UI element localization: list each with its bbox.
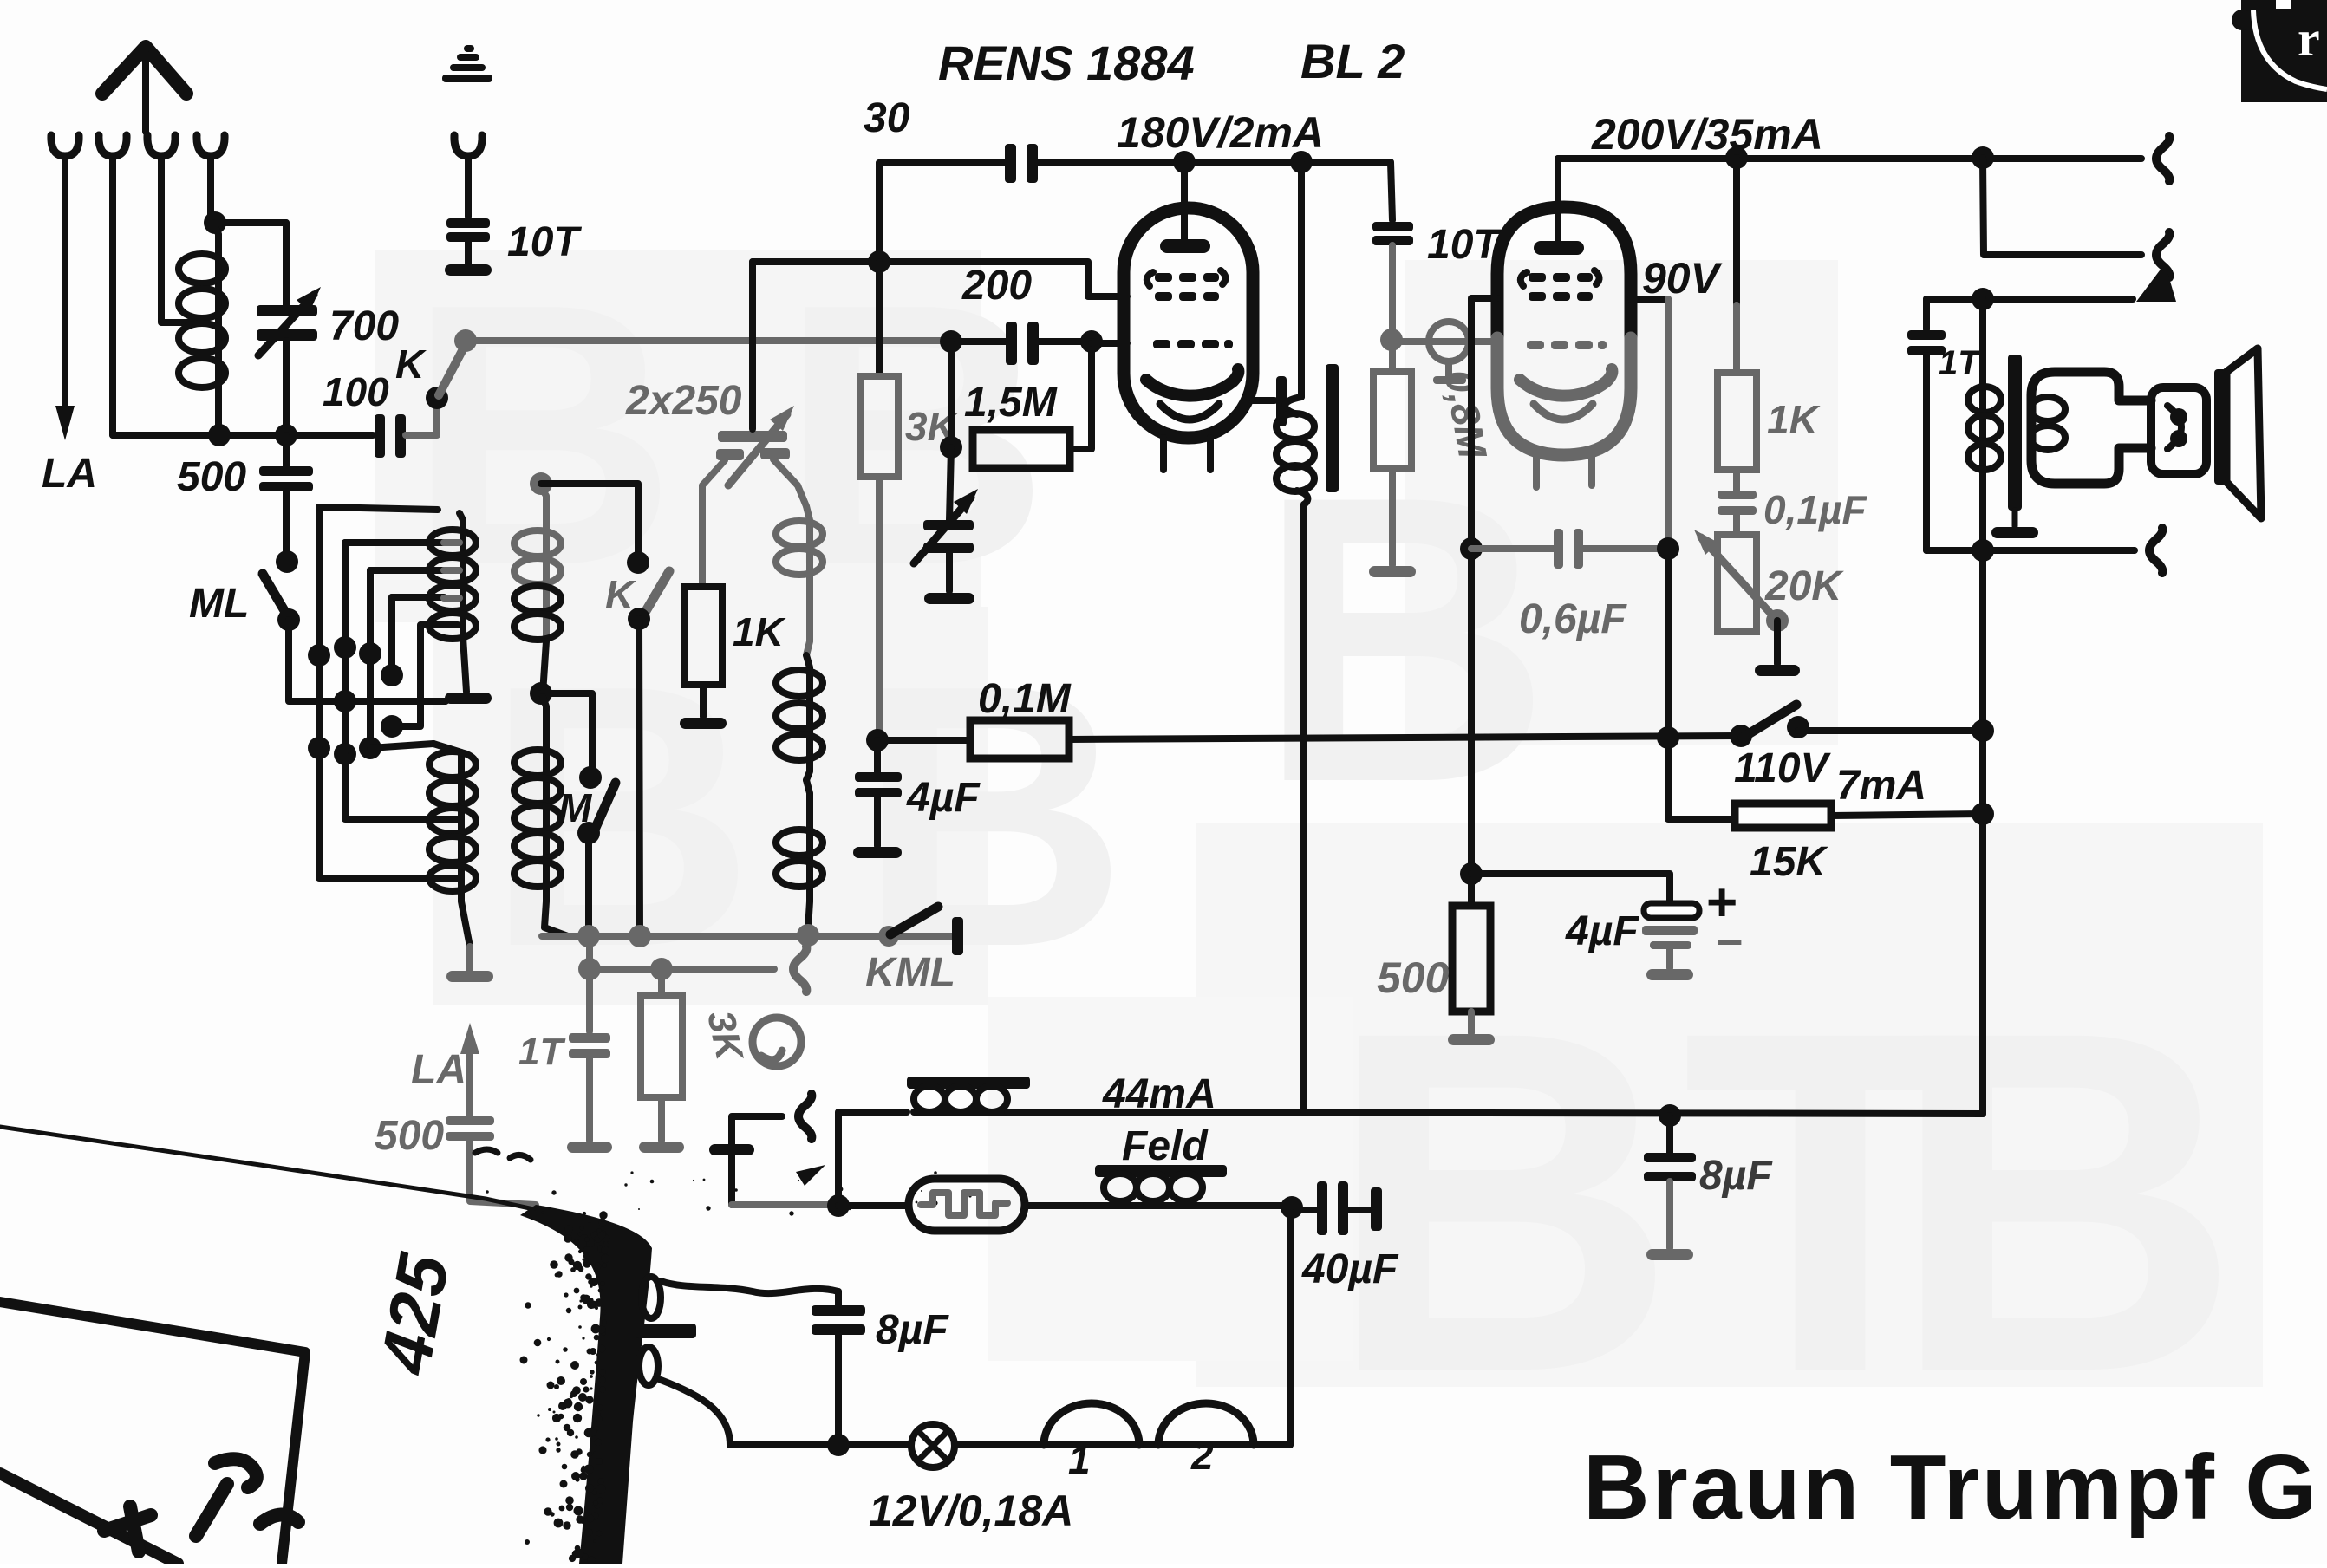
antenna terminal cups: [51, 135, 225, 156]
terminal hook (output bottom): [2149, 528, 2162, 573]
switch M lower contact: [577, 822, 600, 844]
wire connector to 8uF top: [661, 1281, 838, 1293]
ground (4uF bias): [853, 847, 902, 858]
switch ML contact: [277, 608, 300, 631]
node grid bus / 200 cap: [940, 330, 962, 353]
wire antenna bus: [113, 432, 373, 439]
ground (3K AF): [639, 1142, 684, 1153]
label Feld: [1122, 1123, 1209, 1169]
ground (coil L2b): [446, 971, 493, 982]
svg-text:10T: 10T: [507, 219, 582, 265]
wire antenna lead 1 (LA): [55, 156, 75, 440]
svg-text:1: 1: [1068, 1437, 1091, 1482]
svg-text:2: 2: [1190, 1433, 1214, 1478]
wire bias bus: [1069, 736, 1739, 739]
variable capacitor 2x250: [702, 406, 806, 586]
label 425 (underlying page): [366, 1247, 465, 1381]
label 3K (AF): [699, 1007, 751, 1066]
label 12V/0.18A: [869, 1487, 1073, 1535]
coil L2a (RF coil upper): [429, 513, 476, 692]
ground bar (coil L2a): [445, 693, 492, 704]
capacitor 1T (AF): [569, 969, 610, 1141]
svg-text:1T: 1T: [1939, 344, 1982, 382]
svg-text:90V: 90V: [1642, 254, 1723, 303]
node K1 pivot on gray bus: [454, 329, 477, 352]
svg-text:1K: 1K: [733, 609, 786, 654]
label 1K (osc): [733, 609, 786, 654]
node coil L3 mid: [530, 682, 552, 705]
resistor 1K (tone): [1718, 158, 1757, 470]
node grid V2: [1380, 329, 1403, 351]
svg-text:8µF: 8µF: [876, 1307, 949, 1353]
resistor 0.8M: [1373, 340, 1411, 565]
wire 44mA bus: [1007, 1112, 1983, 1114]
ground (500 cathode): [1448, 1034, 1495, 1045]
node 110V on rail: [1972, 719, 1994, 742]
terminal hook (pickup ground): [798, 1094, 812, 1139]
wire heater return: [730, 1441, 1290, 1448]
wire Feld to fuse line: [1287, 1210, 1294, 1445]
wire pickup bus: [590, 936, 774, 969]
svg-text:BL 2: BL 2: [1300, 34, 1405, 88]
label M: [558, 785, 593, 830]
wire 180V bus: [1075, 162, 1392, 220]
label 15K: [1750, 839, 1828, 885]
svg-text:40µF: 40µF: [1301, 1246, 1399, 1292]
node 15K on rail: [1972, 803, 1994, 825]
wire choke riser: [838, 1112, 907, 1206]
wire HT right rail upper: [1983, 158, 2141, 255]
svg-text:110V: 110V: [1734, 745, 1832, 791]
label 7mA: [1836, 763, 1926, 809]
node 1K feed on bus: [1725, 146, 1748, 169]
wire heater feed: [732, 1201, 834, 1208]
switch contact d1: [381, 664, 403, 686]
svg-text:r: r: [2298, 10, 2320, 67]
terminal hook (output mid): [2156, 232, 2169, 277]
barretter: [838, 1179, 1086, 1231]
capacitor 500 (antenna): [259, 435, 313, 558]
wire grid V2: [1392, 338, 1497, 345]
label KML: [865, 950, 955, 996]
svg-text:100: 100: [323, 369, 389, 414]
capacitor 0.1uF: [1718, 470, 1757, 535]
label 500 (cathode): [1377, 953, 1450, 1002]
interstage transformer primary: [1276, 162, 1314, 1112]
capacitor 30: [879, 144, 1075, 183]
node on ML wire: [334, 690, 356, 712]
wire switch contact column a: [319, 507, 438, 748]
wire M to KML bus: [585, 833, 592, 935]
svg-text:LA: LA: [42, 451, 97, 497]
switch K2 arm: [643, 571, 669, 615]
capacitor 40uF: [1297, 1181, 1382, 1235]
svg-text:0,6µF: 0,6µF: [1519, 596, 1627, 642]
tube V1 RENS 1884: [1124, 162, 1253, 470]
wire ML to coil ground bar: [289, 620, 446, 701]
svg-text:1,5M: 1,5M: [964, 380, 1058, 426]
capacitor 0.6uF: [1471, 529, 1666, 569]
wire osc top to K2: [541, 484, 638, 560]
ground (20K): [1755, 665, 1800, 676]
switch contact a2: [308, 737, 330, 759]
label 200V/35mA: [1591, 110, 1823, 159]
svg-text:500: 500: [177, 454, 246, 500]
torn page edge: [0, 1127, 972, 1565]
svg-text:0,1µF: 0,1µF: [1763, 487, 1867, 532]
label 700: [329, 303, 399, 349]
switch K2 lower contact: [628, 608, 650, 630]
stamp (top right): [2232, 0, 2327, 102]
wire speaker bottom: [1926, 547, 2135, 554]
node antenna coil top: [204, 211, 226, 234]
capacitor 100: [375, 400, 437, 458]
ground (0.8M): [1369, 566, 1416, 577]
wire node to 700 branch: [215, 219, 286, 226]
label 0.8M: [1436, 367, 1496, 463]
switch 110V pivot: [1730, 725, 1752, 747]
svg-text:B: B: [486, 608, 755, 1025]
wire connector to heater return: [661, 1380, 730, 1445]
svg-text:1T: 1T: [518, 1031, 565, 1073]
grid cap connector V2: [1429, 322, 1469, 384]
switch K1 arm: [439, 344, 466, 395]
resistor 3K (screen): [861, 262, 898, 738]
label 4uF (bias): [906, 775, 981, 821]
label 200: [961, 263, 1032, 309]
coil L2b (RF coil lower): [429, 744, 476, 947]
capacitor 8uF (heater): [812, 1291, 865, 1443]
capacitor 8uF (anode): [1644, 1104, 1696, 1248]
terminal cup 10T branch: [454, 135, 482, 156]
svg-text:KML: KML: [865, 950, 955, 996]
antenna symbol: [102, 47, 186, 132]
capacitor 500 (bottom): [446, 1116, 536, 1205]
svg-text:200: 200: [961, 263, 1032, 309]
svg-text:K: K: [395, 342, 427, 387]
wire HT right rail lower: [1979, 299, 1986, 1114]
wire switch contact column b: [345, 543, 444, 754]
speaker magnet housing: [2031, 372, 2151, 484]
wire to 2x250 top: [749, 262, 756, 429]
node 700/500 on bus: [275, 424, 297, 446]
label 100: [323, 369, 389, 414]
label 0.6uF: [1519, 596, 1627, 642]
antenna coil L1: [179, 227, 225, 429]
node 8uF heater: [827, 1434, 850, 1456]
label RENS 1884: [938, 36, 1195, 90]
label 2 (fuse): [1190, 1433, 1214, 1478]
node V1 anode on bus: [1173, 151, 1196, 173]
label BL 2: [1300, 34, 1405, 88]
svg-text:700: 700: [329, 303, 399, 349]
switch K1 contact: [426, 387, 448, 409]
terminal hook (output top): [2156, 136, 2169, 181]
coil L3a (osc coil upper): [514, 487, 561, 693]
svg-text:20K: 20K: [1764, 563, 1844, 609]
label K (K2): [605, 572, 636, 617]
svg-text:180V/2mA: 180V/2mA: [1117, 108, 1324, 157]
wire b2 to coil stub: [345, 754, 444, 819]
ground (10T antenna): [445, 264, 492, 276]
svg-text:10T: 10T: [1427, 222, 1502, 268]
node transformer on bus: [1290, 151, 1313, 173]
wire KML bus: [542, 933, 952, 940]
wire switch contact column d: [392, 597, 444, 675]
fuse 2: [1158, 1403, 1254, 1445]
ground bar (pickup): [709, 1144, 754, 1155]
resistor 0.1M: [877, 720, 1069, 758]
capacitor 4uF electrolytic: [1471, 874, 1699, 968]
svg-text:7mA: 7mA: [1836, 763, 1926, 809]
capacitor 1T (output): [1907, 299, 1946, 550]
svg-text:15K: 15K: [1750, 839, 1828, 885]
label 90V: [1642, 254, 1723, 303]
node 0.6uF left: [1460, 537, 1483, 560]
node screen bus / 30cap riser: [868, 250, 890, 273]
capacitor 4uF (bias): [855, 740, 902, 846]
switch contact c1: [359, 642, 381, 665]
switch M upper contact: [579, 766, 602, 789]
label LA (bottom): [411, 1047, 466, 1093]
switch contact c2: [359, 737, 381, 759]
speaker diaphragm: [2214, 369, 2226, 485]
wire a2 to coil stub: [319, 748, 444, 878]
svg-text:RENS 1884: RENS 1884: [938, 36, 1195, 90]
label 10T (antenna): [507, 219, 582, 265]
label K (K1): [395, 342, 427, 387]
node L4 bottom on KML bus: [797, 924, 819, 947]
wire screen bus: [753, 262, 1127, 296]
label 0.1M: [978, 676, 1072, 722]
ground (output transformer): [1991, 527, 2038, 538]
wire antenna lead 4: [207, 156, 214, 221]
capacitor 10T (coupling): [1372, 222, 1413, 336]
node 0.6uF right: [1657, 537, 1679, 560]
wire switch contact column e: [392, 625, 444, 726]
label - (4uF): [1717, 914, 1743, 966]
switch M arm: [595, 783, 616, 830]
switch 110V arm: [1743, 705, 1796, 738]
svg-text:M: M: [558, 785, 593, 830]
label 2x250: [625, 378, 742, 424]
switch KML contact: [878, 926, 899, 947]
node Feld/40uF: [1281, 1196, 1303, 1219]
svg-text:–: –: [1717, 914, 1743, 966]
ground (trimmer): [924, 593, 974, 604]
svg-text:4µF: 4µF: [906, 775, 981, 821]
resistor 1K (osc): [684, 587, 722, 717]
underlying page glyphs: [104, 1459, 298, 1552]
node oscillator coil top: [530, 472, 552, 495]
svg-text:500: 500: [1377, 953, 1450, 1002]
choke (smoothing): [907, 1077, 1030, 1112]
node speaker bottom: [1972, 539, 1994, 562]
terminal hook (pickup bus): [793, 947, 806, 992]
svg-text:44mA: 44mA: [1102, 1071, 1216, 1117]
speaker horn: [2226, 348, 2261, 518]
node K2 on KML bus: [629, 925, 651, 947]
variable capacitor 700: [257, 223, 321, 435]
svg-text:500: 500: [375, 1113, 444, 1159]
switch contact e1: [381, 715, 403, 738]
coil L3b (osc coil lower): [514, 697, 568, 936]
svg-text:Braun Trumpf G: Braun Trumpf G: [1583, 1436, 2319, 1539]
node 0.1M/4uF: [866, 729, 889, 751]
svg-text:30: 30: [864, 95, 910, 141]
tube V2 BL 2: [1497, 159, 1631, 487]
svg-text:ML: ML: [189, 581, 249, 627]
wire LA arrow (bottom): [460, 1023, 479, 1116]
switch KML bar contact: [952, 917, 963, 955]
label 1T (output): [1939, 344, 1982, 382]
ground (8uF anode): [1646, 1249, 1693, 1260]
counterpoise symbol: [442, 45, 492, 82]
svg-text:K: K: [605, 572, 636, 617]
svg-text:1K: 1K: [1767, 397, 1821, 442]
ground (1K osc): [680, 718, 727, 729]
resistor 15K: [1735, 804, 1983, 828]
switch ML pivot: [276, 550, 298, 573]
label ML: [189, 581, 249, 627]
switch K2 upper contact: [627, 551, 649, 574]
switch 110V contact: [1787, 716, 1809, 738]
switch contact b2: [334, 743, 356, 765]
ground (1T AF): [567, 1142, 612, 1153]
node heater/choke: [827, 1194, 850, 1217]
wire speaker top: [1926, 264, 2176, 310]
svg-text:B: B: [1890, 930, 2240, 1473]
ground (4uF electrolytic): [1646, 969, 1693, 980]
wire 30cap riser: [876, 163, 883, 262]
svg-text:12V/0,18A: 12V/0,18A: [869, 1487, 1073, 1535]
svg-text:4µF: 4µF: [1565, 908, 1639, 954]
trimmer capacitor (grid): [914, 447, 978, 591]
label 500 (bottom): [375, 1113, 444, 1159]
wire 200V bus: [1558, 159, 2141, 208]
svg-text:200V/35mA: 200V/35mA: [1591, 110, 1823, 159]
speaker coil box: [2151, 387, 2206, 474]
fuse 1: [1044, 1403, 1139, 1445]
output transformer core: [2008, 355, 2022, 526]
wire antenna lead 2: [109, 156, 116, 435]
cathode terminal V1: [1253, 376, 1287, 426]
wire antenna lead 3 (coil tap): [161, 156, 198, 322]
capacitor 10T (antenna): [446, 156, 490, 264]
label 10T (coupling): [1427, 222, 1502, 268]
wire K2 to KML bus: [639, 619, 640, 935]
label + (4uF): [1706, 873, 1737, 933]
capacitor 200: [951, 322, 1088, 365]
switch KML arm: [890, 907, 938, 934]
wire coil L2b to ground: [466, 947, 473, 971]
resistor 1.5M: [940, 342, 1092, 468]
svg-text:LA: LA: [411, 1047, 466, 1093]
svg-text:8µF: 8µF: [1699, 1153, 1773, 1199]
label 4uF (electrolytic): [1565, 908, 1639, 954]
label 0.1uF: [1763, 487, 1867, 532]
wire gray grid bus: [466, 337, 948, 344]
mains connector (torn): [636, 1277, 696, 1385]
label 44mA: [1102, 1071, 1216, 1117]
switch ML arm: [263, 574, 289, 618]
svg-text:0,1M: 0,1M: [978, 676, 1072, 722]
lamp 12V/0.18A: [911, 1424, 955, 1467]
label 30: [864, 95, 910, 141]
wire grid to tube V1: [1092, 340, 1127, 347]
svg-text:2x250: 2x250: [625, 378, 742, 424]
node bias bus / screen: [1657, 726, 1679, 749]
label 180V/2mA: [1117, 108, 1324, 157]
label 1K (tone): [1767, 397, 1821, 442]
underlying page outline: [0, 1302, 305, 1564]
pickup jack symbol: [753, 1018, 801, 1066]
wire 110V contact: [1798, 727, 1983, 734]
label 1.5M: [964, 380, 1058, 426]
label 500 (antenna): [177, 454, 246, 500]
field coil Feld: [1086, 1165, 1288, 1206]
label LA (top): [42, 451, 97, 497]
label 3K (screen): [905, 404, 959, 449]
node 3K on pickup bus: [650, 958, 673, 980]
svg-text:Feld: Feld: [1122, 1123, 1209, 1169]
wire c2 to coil 2b top: [370, 744, 433, 748]
potentiometer 20K: [1694, 530, 1789, 664]
speaker voice coil: [2167, 406, 2187, 449]
switch contact b1: [334, 636, 356, 659]
title Braun Trumpf G: [1583, 1436, 2319, 1539]
switch contact a1: [308, 644, 330, 667]
label 20K: [1764, 563, 1844, 609]
label 1 (fuse): [1068, 1437, 1091, 1482]
node 200 cap right: [1080, 330, 1103, 353]
label 1T (AF): [518, 1031, 565, 1073]
wire switch contact column c: [370, 570, 444, 748]
output transformer secondary: [2030, 397, 2065, 450]
interstage transformer core: [1326, 364, 1339, 492]
resistor 500 (cathode): [1452, 862, 1490, 1033]
resistor 3K (AF): [641, 969, 682, 1141]
label 110V: [1734, 745, 1832, 791]
label 8uF (heater): [876, 1307, 949, 1353]
node 1T on pickup bus: [578, 958, 601, 980]
wire pickup ground: [732, 1116, 782, 1205]
wire V2 cathode: [1471, 298, 1497, 872]
label 8uF (anode): [1699, 1153, 1773, 1199]
coil L4 (osc grid coil): [776, 506, 823, 929]
node speaker feed on bus: [1972, 146, 1994, 169]
wire V2 screen: [1631, 299, 1735, 819]
output transformer primary: [1968, 387, 2001, 470]
label 40uF: [1301, 1246, 1399, 1292]
wire L3 mid to M switch: [541, 693, 592, 774]
node M on KML bus: [577, 925, 600, 947]
node coil bottom on bus: [208, 424, 231, 446]
